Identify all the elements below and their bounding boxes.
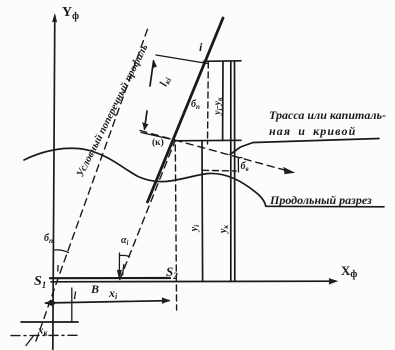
Y axis arrowhead xyxy=(53,15,57,23)
tick above S1 on baseline xyxy=(57,266,59,272)
svg-text:ная и кривой: ная и кривой xyxy=(269,124,356,138)
trace line (thick) i to below k xyxy=(148,18,224,202)
double vertical yk line a xyxy=(230,61,232,281)
vertical yi (lower, solid) xyxy=(201,142,204,282)
X axis arrowhead xyxy=(329,279,337,284)
slash tick on x_k line xyxy=(26,337,33,346)
left arrowhead of dimension xyxy=(46,300,53,306)
double vertical yk line b xyxy=(234,61,236,281)
svg-text:бп: бп xyxy=(191,99,200,111)
right arrowhead of dimension xyxy=(162,298,170,304)
svg-text:αi: αi xyxy=(121,235,129,247)
dashed transverse profile line through S1 xyxy=(36,25,149,341)
svg-text:бп: бп xyxy=(44,233,53,245)
perpendicular tick at k xyxy=(141,133,170,140)
arc of angle b_p at S1 xyxy=(54,250,69,253)
dashed vertical from i down xyxy=(207,62,210,144)
arc of angle alpha xyxy=(120,255,130,256)
vertical arrow at alpha point xyxy=(118,253,120,276)
svg-text:уi-ук: уi-ук xyxy=(213,97,224,116)
baseline S1-S2 (double line) xyxy=(50,277,170,279)
svg-text:Трасса или капиталь-: Трасса или капиталь- xyxy=(269,108,386,122)
X axis (Xф) xyxy=(51,280,331,283)
svg-text:бв: бв xyxy=(241,161,249,173)
dashed horizontal at level of delta-v xyxy=(203,169,237,172)
svg-text:Продольный разрез: Продольный разрез xyxy=(269,193,372,207)
svg-text:xк: xк xyxy=(37,325,49,338)
dot at axis crossing xyxy=(51,301,55,305)
svg-text:lкi: lкi xyxy=(158,74,174,88)
delta-v bracket xyxy=(238,158,242,173)
dimension line l_ki with arrows xyxy=(150,61,154,86)
svg-text:(к): (к) xyxy=(152,137,164,148)
svg-text:xi: xi xyxy=(108,286,118,301)
Y axis (Yф) xyxy=(53,16,55,350)
svg-text:B: B xyxy=(90,282,99,296)
horizontal line through k xyxy=(172,139,241,142)
svg-text:Xф: Xф xyxy=(341,263,357,280)
terrain wavy curve (longitudinal section) xyxy=(24,148,266,206)
horizontal line through point i xyxy=(204,60,242,63)
underline of trassa label xyxy=(253,139,379,143)
svg-text:S1: S1 xyxy=(34,274,46,290)
svg-text:i: i xyxy=(199,40,203,54)
tick right of down-arrow xyxy=(123,265,124,276)
svg-text:ук: ук xyxy=(218,225,230,234)
horizontal construction line bottom left xyxy=(21,321,78,323)
svg-text:l: l xyxy=(74,291,77,302)
svg-text:уi: уi xyxy=(189,225,201,232)
vertical yi-yk (solid) xyxy=(222,61,224,140)
leader from double vertical to trassa underline xyxy=(230,143,253,155)
underline of longitudinal-section label xyxy=(266,205,384,208)
B and x_i dimension line xyxy=(46,301,170,303)
svg-text:Условный поперечный профиль: Условный поперечный профиль xyxy=(75,43,150,179)
dash-dot x_k dimension line xyxy=(11,334,77,336)
dashed vertical from k down to S2 and below xyxy=(175,145,176,310)
perpendicular tick at i xyxy=(156,55,208,64)
svg-text:Yф: Yф xyxy=(62,5,79,22)
dashed tangent line through k xyxy=(140,131,290,172)
tick at x=72 between B segments xyxy=(71,288,73,322)
arrowhead of dashed tangent xyxy=(284,168,295,174)
dashed line from base point to k xyxy=(120,141,175,280)
